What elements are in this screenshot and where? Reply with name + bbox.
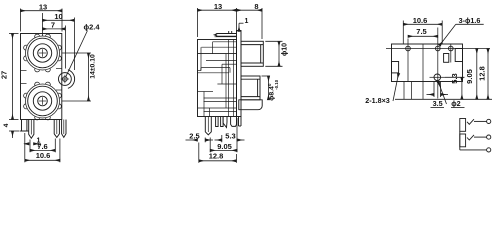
svg-text:12.8: 12.8 <box>478 66 487 81</box>
dimension 7 (front) <box>43 26 66 69</box>
dimension phi10 (side) <box>265 41 282 66</box>
svg-text:14±0.10: 14±0.10 <box>90 54 97 79</box>
svg-text:3.5: 3.5 <box>433 99 443 108</box>
jack J1 rings <box>28 38 58 68</box>
svg-text:10.6: 10.6 <box>36 151 51 160</box>
left slot 1.8x3 <box>392 62 399 73</box>
dimension 5.3 (side) <box>215 135 245 142</box>
svg-text:10: 10 <box>54 12 62 21</box>
jack symbol J1 sleeve <box>460 119 466 132</box>
wire J1 tip <box>474 120 487 122</box>
svg-text:2.5: 2.5 <box>189 131 199 140</box>
dimension 10 (front) <box>43 13 75 70</box>
dimension 12.8 (side) <box>199 143 237 163</box>
leg slot projection lines <box>403 82 405 100</box>
side pin P2 <box>216 117 219 127</box>
svg-text:13: 13 <box>214 2 222 11</box>
svg-text:3-ϕ1.6: 3-ϕ1.6 <box>459 16 481 25</box>
dimension 12.8 (pcb) <box>487 49 489 100</box>
dimension 7.5 (pcb) <box>408 35 438 37</box>
back plate <box>237 31 242 117</box>
ground bus wire <box>459 131 461 150</box>
dimension 1 (pin width) <box>24 143 41 145</box>
dimension 13 (side) <box>198 8 237 37</box>
svg-text:13: 13 <box>39 2 47 11</box>
internal vertical line <box>422 44 424 99</box>
dimension 7.6 (front) <box>30 139 55 153</box>
dimension 14±0.10 (front) <box>62 53 91 101</box>
svg-text:ϕ2.4: ϕ2.4 <box>83 22 100 31</box>
dimension 10.6 (front) <box>25 133 60 162</box>
svg-text:2-1.8×3: 2-1.8×3 <box>365 96 390 105</box>
svg-text:1: 1 <box>245 18 249 25</box>
top barrel <box>241 41 263 66</box>
dimension 4 (front leg) <box>9 131 20 138</box>
jack symbol J2 sleeve <box>460 134 466 147</box>
pin P3 <box>62 120 66 138</box>
dimension phi8.4±0.10 (side) <box>262 76 271 100</box>
mounting leg <box>22 120 27 132</box>
terminal circle J2 <box>487 135 491 139</box>
jack J1 flange scallops <box>24 34 62 72</box>
svg-text:5.3: 5.3 <box>225 131 235 140</box>
jack J2 flange scallops <box>24 82 62 120</box>
svg-text:ϕ2: ϕ2 <box>451 99 460 108</box>
svg-text:27: 27 <box>0 71 9 79</box>
pcb edge baseline <box>395 98 492 100</box>
hole B <box>436 46 441 51</box>
body seam lines <box>21 70 27 72</box>
svg-text:ϕ10: ϕ10 <box>282 43 289 56</box>
side pin P1 <box>205 117 211 135</box>
pin P2 <box>54 120 59 138</box>
right slot 1.8x3 <box>455 49 462 62</box>
svg-text:10.6: 10.6 <box>413 16 428 25</box>
side pin P3 hook <box>223 117 227 128</box>
front view body <box>21 34 62 120</box>
svg-text:9.05: 9.05 <box>217 142 232 151</box>
hole A <box>406 46 411 51</box>
svg-text:7: 7 <box>51 21 55 30</box>
switch contact J2 <box>467 135 474 140</box>
svg-text:-0.10: -0.10 <box>274 79 279 89</box>
hole C <box>449 46 454 51</box>
dimension 9.05 (side) <box>210 118 237 152</box>
svg-text:4: 4 <box>3 123 10 127</box>
svg-text:8: 8 <box>254 2 258 11</box>
dimension 13 (front) <box>21 9 63 32</box>
center contact slot <box>444 54 449 63</box>
svg-text:7.5: 7.5 <box>416 27 426 36</box>
wire J2 tip <box>474 136 487 138</box>
dimension 1 (plate) leader <box>239 23 244 31</box>
terminal circle ground <box>487 148 491 152</box>
side boss with hole <box>68 70 75 89</box>
dimension 27 (front) <box>9 34 19 120</box>
dimension 2.5 (side) <box>186 138 214 143</box>
svg-text:7.6: 7.6 <box>37 142 47 151</box>
footprint outline <box>392 44 463 82</box>
side pin P4 <box>231 117 237 127</box>
terminal circle J1 <box>487 119 491 123</box>
svg-text:5.3: 5.3 <box>450 73 459 83</box>
hole D phi2 <box>434 74 441 81</box>
side view body <box>198 40 237 117</box>
switch contact J1 <box>467 119 474 124</box>
pin P1 <box>29 120 34 139</box>
svg-text:12.8: 12.8 <box>209 151 224 160</box>
ground wire <box>460 149 487 151</box>
lower barrel washer <box>239 100 262 110</box>
jack J2 rings <box>28 86 58 116</box>
top solder lug <box>216 34 237 37</box>
dimension 8 (side) <box>237 8 263 39</box>
dimension 10.6 (pcb) <box>403 21 442 45</box>
hole row centerline <box>386 48 490 50</box>
dimension 5.3 (pcb) <box>445 77 465 99</box>
side view internal lines <box>198 40 237 117</box>
svg-text:9.05: 9.05 <box>465 69 474 84</box>
lower barrel <box>241 76 260 100</box>
dimension 9.05 (pcb) <box>476 49 478 100</box>
